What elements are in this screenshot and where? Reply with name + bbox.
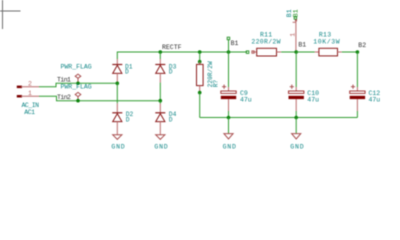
diode D2 bbox=[112, 103, 133, 135]
resistor R7 (vertical) bbox=[197, 61, 220, 93]
junction rail / C10 / pin bbox=[294, 50, 298, 54]
junction bottom rail / C10 / GND bbox=[294, 116, 298, 120]
junction at R7 bottom pin bbox=[198, 91, 202, 95]
wire Tin2 (AC pin1 to bridge) bbox=[39, 96, 160, 101]
svg-text:47u: 47u bbox=[240, 97, 252, 104]
svg-text:B2: B2 bbox=[358, 42, 366, 49]
junction at R7 top pin bbox=[198, 60, 202, 64]
wire D1 junction down to D2 bbox=[116, 83, 118, 103]
svg-text:GND: GND bbox=[223, 144, 237, 151]
wire B1 junction to R13 bbox=[296, 51, 315, 53]
wire Tin1 (AC pin2 to bridge) bbox=[39, 83, 117, 87]
junction on Tin2 at PWR_FLAG bbox=[76, 99, 80, 103]
svg-text:47u: 47u bbox=[369, 97, 381, 104]
junction bottom rail / C9 / GND bbox=[227, 116, 231, 120]
capacitor C10 bbox=[289, 85, 320, 111]
svg-text:47u: 47u bbox=[307, 97, 319, 104]
pin from above (B1) bbox=[286, 9, 299, 52]
ground under D4 bbox=[154, 135, 168, 151]
svg-text:1: 1 bbox=[28, 90, 32, 97]
wire C12 bottom corner to bottom rail bbox=[356, 111, 358, 118]
diode D4 bbox=[155, 104, 176, 135]
wire C9 bottom to rail bbox=[228, 111, 230, 118]
wire down to GND4 bbox=[295, 118, 297, 134]
ground under C10 bbox=[290, 134, 304, 151]
svg-text:R?: R? bbox=[213, 80, 220, 88]
wire R13 right to B2 junction bbox=[342, 51, 358, 53]
ground under C9 bbox=[223, 134, 237, 151]
junction rail / R7 bbox=[198, 50, 202, 54]
wire B2 down to C12 bbox=[356, 52, 358, 87]
wire rail junction down to D3 bbox=[159, 50, 163, 54]
diode D1 bbox=[112, 59, 132, 83]
svg-text:1: 1 bbox=[290, 33, 297, 37]
wire junction down to D4 bbox=[159, 101, 161, 104]
svg-text:Tin1: Tin1 bbox=[57, 77, 71, 84]
junction Tin1 / D1 / D2 bbox=[116, 82, 120, 86]
resistor R11 bbox=[251, 31, 281, 56]
junction rail / C9 / label B1 bbox=[227, 50, 231, 54]
label B1 stub and dangling square bbox=[228, 40, 230, 52]
svg-text:PWR_FLAG: PWR_FLAG bbox=[61, 84, 92, 91]
svg-text:10K/3W: 10K/3W bbox=[313, 38, 340, 45]
resistor R13 bbox=[313, 31, 342, 55]
svg-text:B1: B1 bbox=[293, 9, 300, 17]
power flag PWR_FLAG 1 bbox=[61, 63, 92, 83]
junction on Tin1 at PWR_FLAG bbox=[76, 82, 80, 86]
svg-text:B1: B1 bbox=[231, 40, 239, 47]
svg-text:D: D bbox=[126, 117, 130, 124]
connector AC1 pin 2 bbox=[17, 81, 39, 88]
svg-text:220R/2W: 220R/2W bbox=[251, 38, 280, 45]
wire R11 right to B1 junction bbox=[281, 51, 296, 53]
wire top rail RECTF bbox=[117, 51, 247, 53]
svg-text:AC1: AC1 bbox=[24, 109, 35, 116]
wire B1 down to C10 bbox=[295, 52, 297, 87]
svg-text:2: 2 bbox=[28, 81, 32, 88]
sheet border corner cross bbox=[0, 0, 21, 29]
svg-text:D: D bbox=[169, 117, 173, 124]
wire B1 down to C9 bbox=[228, 52, 230, 87]
svg-text:PWR_FLAG: PWR_FLAG bbox=[61, 63, 92, 70]
wire bottom rail bbox=[200, 117, 358, 119]
svg-text:B1: B1 bbox=[298, 42, 306, 49]
wire C10 bottom to rail bbox=[295, 111, 297, 118]
wire down to GND3 bbox=[228, 118, 230, 134]
wire R7 bottom to bottom rail bbox=[199, 93, 201, 118]
svg-text:R13: R13 bbox=[319, 31, 331, 38]
wire D3 anode down to Tin2 bbox=[159, 83, 161, 101]
svg-text:R11: R11 bbox=[260, 31, 272, 38]
wire rail end dangling square bbox=[246, 51, 249, 54]
svg-text:AC_IN: AC_IN bbox=[22, 102, 40, 109]
capacitor C9 bbox=[221, 85, 252, 111]
wire rail corner down to D1 bbox=[116, 52, 118, 60]
capacitor C12 bbox=[350, 85, 381, 111]
svg-text:Tin2: Tin2 bbox=[57, 94, 71, 101]
svg-text:GND: GND bbox=[111, 144, 125, 151]
junction Tin2 / D3 / D4 bbox=[159, 99, 163, 103]
svg-text:GND: GND bbox=[290, 144, 304, 151]
svg-text:RECTF: RECTF bbox=[162, 44, 182, 51]
connector AC1 pin 1 bbox=[17, 90, 39, 97]
svg-text:GND: GND bbox=[154, 144, 168, 151]
diode D3 bbox=[155, 59, 176, 83]
junction B2 bbox=[356, 50, 360, 54]
ground under D2 bbox=[111, 135, 125, 151]
svg-text:D: D bbox=[169, 69, 173, 76]
svg-text:D: D bbox=[125, 69, 129, 76]
power flag PWR_FLAG 2 bbox=[61, 84, 92, 101]
wire rail down to R7 bbox=[199, 52, 201, 62]
